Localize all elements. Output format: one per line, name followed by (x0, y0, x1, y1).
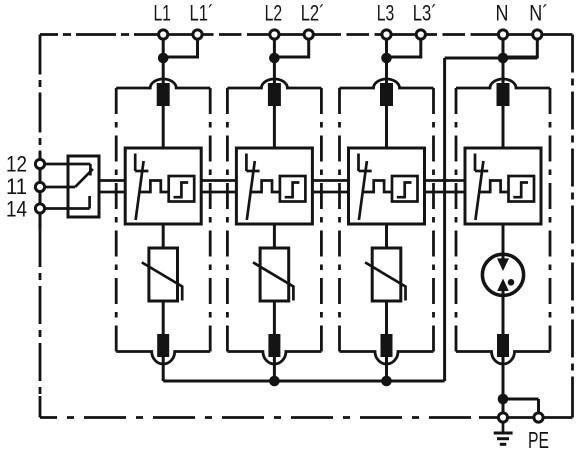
svg-text:N: N (496, 1, 509, 26)
svg-text:L1´: L1´ (190, 1, 214, 26)
svg-text:L3: L3 (377, 1, 395, 26)
svg-text:14: 14 (6, 197, 27, 222)
svg-text:L1: L1 (153, 1, 171, 26)
svg-text:L3´: L3´ (413, 1, 437, 26)
svg-text:12: 12 (6, 152, 27, 177)
svg-text:PE: PE (528, 427, 549, 453)
svg-text:L2: L2 (265, 1, 283, 26)
svg-text:N´: N´ (529, 1, 548, 26)
svg-text:11: 11 (6, 174, 27, 199)
svg-text:L2´: L2´ (301, 1, 325, 26)
